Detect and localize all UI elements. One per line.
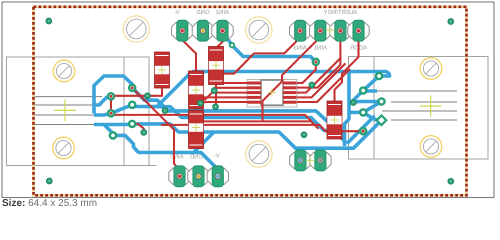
mounting hole H1 (top left)	[123, 16, 149, 42]
wire red ADDR to C3 top	[335, 34, 359, 101]
label AIN1	[313, 45, 327, 52]
dot mid a	[211, 88, 217, 94]
wire red IC R1 to via	[297, 62, 316, 83]
label GND bottom-right	[313, 165, 327, 172]
wire red via A diag chain to AIN0 pad	[132, 88, 179, 177]
wire blue bottom bus riser	[194, 132, 215, 153]
wire red IC L1 to C1 bottom	[224, 82, 248, 84]
via right cluster 1	[376, 73, 382, 79]
IC U1 pads left	[248, 82, 262, 104]
pad GND bottom-right	[310, 150, 331, 171]
via top-right corner	[448, 19, 454, 25]
board outline dashed	[34, 7, 467, 196]
label GND	[196, 9, 210, 16]
pad ADDR top-right	[348, 20, 369, 41]
connector J2 hole bottom	[420, 136, 442, 158]
label ADDR	[349, 45, 367, 52]
connector J1 hole top	[53, 60, 75, 82]
pad V- bottom-left	[207, 166, 228, 187]
svg-text:AIN3: AIN3	[293, 45, 307, 52]
label AIN3	[293, 45, 307, 52]
svg-text:V-: V-	[174, 9, 180, 16]
via AIN2 stub	[230, 43, 234, 47]
wire red under-IC line RH2	[204, 121, 319, 128]
wire blue mid bus 2	[157, 107, 347, 144]
diamond via right	[377, 115, 387, 125]
connector J2 module outline (right)	[349, 57, 489, 160]
wire blue top bus	[192, 72, 390, 104]
label V+	[295, 164, 303, 171]
dot left cluster G	[141, 130, 147, 136]
wire blue right link ring5-diamond	[363, 112, 377, 120]
dot mid b	[198, 100, 204, 106]
via right cluster 5	[360, 109, 366, 115]
resistor R1	[155, 52, 170, 88]
via left cluster B	[108, 93, 114, 99]
via right cluster 2	[360, 87, 366, 93]
label V-	[174, 9, 180, 16]
IC U1 origin cross	[268, 89, 276, 97]
wire blue pin4 to via F	[94, 125, 113, 136]
wire blue hook pin2 to via B	[94, 96, 111, 105]
wire blue right link ring5-ring3	[363, 102, 381, 113]
wire blue via C-D link	[111, 105, 132, 114]
connector J2 pin lines	[376, 91, 457, 120]
connector J1 module outline (left)	[7, 57, 157, 166]
wire blue via F to bottom bus	[113, 135, 139, 152]
origin cross top-right group	[326, 26, 334, 34]
connector J1 hole bottom	[53, 137, 75, 159]
IC U1 body	[261, 80, 283, 105]
svg-text:Size: 64.4 x 25.3 mm: Size: 64.4 x 25.3 mm	[2, 198, 97, 209]
via left cluster A	[129, 85, 135, 91]
dot left cluster H2	[162, 108, 168, 114]
wire blue diag B to via	[347, 117, 375, 144]
label V- bottom-left	[214, 153, 220, 160]
label ALERT/RDY	[324, 9, 358, 16]
via left cluster D	[108, 110, 114, 116]
wire red IC R5 diagonal	[297, 69, 350, 102]
svg-text:ALERT/RDY: ALERT/RDY	[324, 9, 358, 16]
via right cluster 3	[378, 98, 384, 104]
wire blue top bus left drop	[134, 72, 192, 107]
wire red AIN2 to C1 top	[216, 34, 223, 52]
label AIN2	[215, 9, 229, 16]
pad GND bottom-left	[188, 166, 209, 187]
pad AIN1 top-right	[310, 20, 331, 41]
wire red IC L3 to R2 bottom	[204, 93, 248, 100]
label AIN0	[170, 154, 184, 161]
connector J1 pin lines	[32, 97, 102, 125]
wire red R1 bottom link	[111, 89, 162, 96]
wire blue bottom bus	[138, 153, 219, 177]
origin cross bottom-right group	[306, 156, 314, 164]
svg-text:AIN2: AIN2	[215, 9, 229, 16]
wire red under-IC line RH3 to via	[161, 125, 363, 131]
wire blue hook pin1 to via A	[94, 76, 132, 114]
connector J1 origin cross	[54, 99, 76, 121]
capacitor C2	[189, 111, 204, 149]
wire red AIN3 diagonal D2	[224, 34, 301, 74]
wire red V- to R2 top	[182, 34, 196, 71]
dot right cluster	[350, 100, 356, 106]
IC U1 pads right	[283, 82, 297, 104]
capacitor C1	[209, 47, 224, 85]
wire blue hook pin3 to via D	[94, 113, 111, 115]
via bottom-right corner	[448, 178, 454, 184]
svg-text:GND: GND	[196, 9, 210, 16]
wire red under-IC line RH1	[111, 113, 311, 121]
dot mid top b	[309, 82, 315, 88]
dot mid c	[213, 104, 219, 110]
wire red via E stub to dot	[132, 124, 144, 132]
pad AIN3 top-right	[290, 20, 311, 41]
wire red IC L2	[214, 87, 247, 89]
wire blue right hook ring5 W	[350, 111, 363, 115]
wire blue mid bus 3 / V+ feeder	[132, 120, 381, 148]
connector J2 hole top	[420, 58, 442, 80]
pad V- top-left	[172, 20, 193, 41]
wire blue right vertical drop	[345, 71, 350, 147]
wire red left via column	[110, 96, 112, 113]
via right mid (red)	[360, 128, 366, 134]
svg-text:V-: V-	[214, 153, 220, 160]
via top-left corner	[46, 18, 52, 24]
wire blue AIN2 route to via	[232, 45, 316, 62]
wire red IC R3 diagonal	[297, 58, 341, 93]
wire blue via E to pin4	[105, 122, 132, 126]
svg-text:AIN1: AIN1	[313, 45, 327, 52]
wire blue right hook dot to ring3	[354, 102, 382, 103]
wire red IC L5	[200, 102, 247, 103]
mounting hole H3 (bottom middle)	[246, 141, 272, 167]
connector J2 origin cross	[420, 95, 442, 117]
wire red C1 bottom drop	[215, 84, 217, 107]
pad GND top-left	[192, 20, 213, 41]
IC U1 outline	[247, 80, 297, 108]
svg-text:AIN0: AIN0	[170, 154, 184, 161]
wire red IC L4 to R2 bottom	[204, 96, 248, 98]
pad AIN0 bottom-left	[169, 166, 190, 187]
pad V+ bottom-right	[290, 150, 311, 171]
label GND bottom-left	[189, 154, 203, 161]
wire red IC R4 diagonal	[297, 63, 346, 97]
via left cluster E	[129, 121, 135, 127]
wire blue right hook ring2 to pin1	[363, 89, 377, 93]
wire blue AIN2 stub	[223, 32, 233, 45]
via left cluster F	[110, 132, 116, 138]
dot on R1 link	[145, 93, 151, 99]
via bottom-left corner	[46, 178, 52, 184]
wire blue V+ pad stub	[300, 148, 304, 160]
wire blue mid bus 1	[132, 88, 344, 135]
pad ALERT/RDY top-right	[330, 20, 351, 41]
pad AIN2 top-left	[212, 20, 233, 41]
resistor R2	[189, 71, 204, 109]
capacitor C3	[327, 101, 342, 139]
wire red ALERT to IC R2	[297, 34, 340, 88]
via mid top	[313, 59, 319, 65]
via left cluster C	[129, 102, 135, 108]
wire red AIN1 diagonal D1 over IC	[263, 34, 321, 121]
dot mid d	[301, 132, 307, 138]
mounting hole H2 (top middle)	[246, 17, 272, 43]
